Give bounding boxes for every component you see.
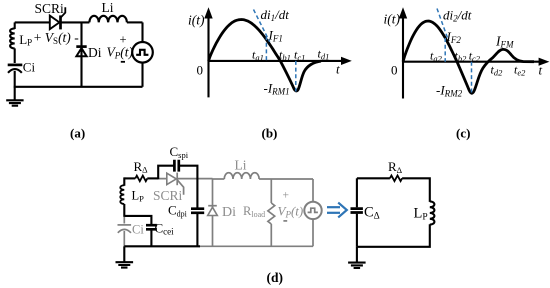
resistor RD eq (390, 176, 402, 182)
y axis (207, 16, 209, 97)
wire (312, 179, 314, 202)
diode Di (76, 47, 86, 57)
wire (357, 224, 430, 247)
wire bottom (14, 86, 143, 88)
svg-text:Di: Di (222, 205, 236, 220)
svg-text:Di: Di (88, 45, 102, 60)
ground stem (123, 246, 125, 261)
y axis (402, 16, 404, 99)
wire (147, 177, 158, 179)
wire (196, 214, 198, 246)
svg-text:di1/dt: di1/dt (261, 7, 290, 23)
wire (270, 224, 272, 246)
current curve i1 (209, 20, 322, 91)
wire Rload drop (270, 179, 272, 203)
svg-text:(b): (b) (262, 126, 278, 141)
svg-text:t: t (336, 62, 340, 77)
inductor LP eq (430, 201, 435, 224)
wire gray left vertical (212, 179, 214, 247)
wire Ci gray stub (123, 217, 125, 224)
inductor LP (120, 185, 124, 204)
capacitor Ccei (146, 225, 157, 229)
inductor LP (10, 28, 15, 48)
wire (141, 62, 143, 87)
svg-text:0: 0 (197, 63, 204, 78)
svg-text:(d): (d) (267, 270, 284, 285)
capacitor Cspi (174, 160, 178, 172)
x arrow (341, 57, 352, 65)
ground stem eq (356, 247, 358, 262)
wire left vertical (123, 177, 125, 185)
wire (123, 231, 125, 246)
ground eq (348, 263, 366, 268)
svg-text:SCRi: SCRi (35, 1, 65, 16)
thyristor SCRi gray (167, 173, 184, 195)
y arrow (204, 7, 212, 18)
svg-text:di2/dt: di2/dt (443, 8, 472, 24)
wire (356, 214, 358, 247)
didt tangent dashed (254, 10, 270, 42)
wire (312, 219, 314, 246)
minus gray (283, 220, 287, 222)
minus (121, 61, 125, 63)
svg-text:t: t (539, 63, 543, 78)
wire Ccei branch (124, 216, 151, 224)
svg-text:(a): (a) (70, 126, 85, 141)
wire (14, 48, 16, 63)
svg-text:SCRi: SCRi (153, 188, 183, 203)
wire (123, 204, 125, 217)
y arrow (399, 7, 407, 18)
x axis (209, 60, 343, 62)
wire (402, 178, 430, 202)
wire (14, 71, 16, 87)
wire up to Cspi (158, 166, 173, 180)
svg-text:0: 0 (391, 63, 398, 78)
capacitor Ci gray (118, 225, 132, 233)
svg-text:i(t): i(t) (188, 13, 205, 28)
wire gray bottom (200, 245, 314, 247)
wire gray top (213, 178, 225, 180)
svg-text:(c): (c) (456, 126, 470, 141)
wire RD (124, 177, 135, 179)
wire eq left (356, 178, 358, 207)
svg-text:Li: Li (102, 0, 114, 15)
source VP (132, 42, 153, 63)
svg-text:i(t): i(t) (384, 12, 401, 27)
wire (61, 21, 90, 23)
wire top-left (15, 21, 50, 23)
wire (141, 22, 143, 42)
wire (180, 166, 198, 208)
ta1 dashed (265, 36, 267, 61)
current curve i2 (403, 21, 534, 93)
wire (14, 22, 16, 29)
wire (127, 21, 143, 23)
tc1 dashed (295, 61, 297, 92)
source VP gray (304, 202, 321, 219)
svg-text:VP(t): VP(t) (107, 45, 134, 61)
inductor Li (89, 16, 126, 23)
svg-text:Li: Li (235, 158, 247, 173)
resistor RD (135, 176, 147, 182)
inductor Li gray (224, 173, 259, 179)
x axis (403, 61, 540, 63)
wire black bottom rail (124, 245, 200, 247)
svg-text:+: + (120, 33, 127, 47)
resistor Rload (268, 203, 275, 224)
svg-text:+: + (283, 190, 290, 202)
didt tangent dashed (437, 9, 448, 40)
thyristor SCRi (50, 7, 66, 29)
wire eq top (357, 177, 390, 179)
svg-text:Ci: Ci (132, 223, 144, 237)
x arrow (539, 58, 550, 66)
ground stem (14, 87, 16, 100)
wire mid drop (80, 22, 82, 86)
wire (150, 230, 152, 246)
ground (6, 100, 23, 105)
wire gray SCR branch (158, 178, 212, 180)
tc2 dashed (471, 62, 473, 95)
capacitor Cdpi (191, 209, 204, 213)
ta2 dashed (444, 38, 446, 62)
ground (116, 262, 134, 267)
capacitor Ci (8, 65, 23, 73)
svg-text:VP(t): VP(t) (278, 204, 304, 220)
capacitor CD (351, 209, 363, 213)
equiv arrow (327, 203, 347, 218)
wire gray (259, 178, 313, 180)
diode Di gray (208, 206, 218, 216)
svg-text:Ci: Ci (23, 60, 36, 75)
